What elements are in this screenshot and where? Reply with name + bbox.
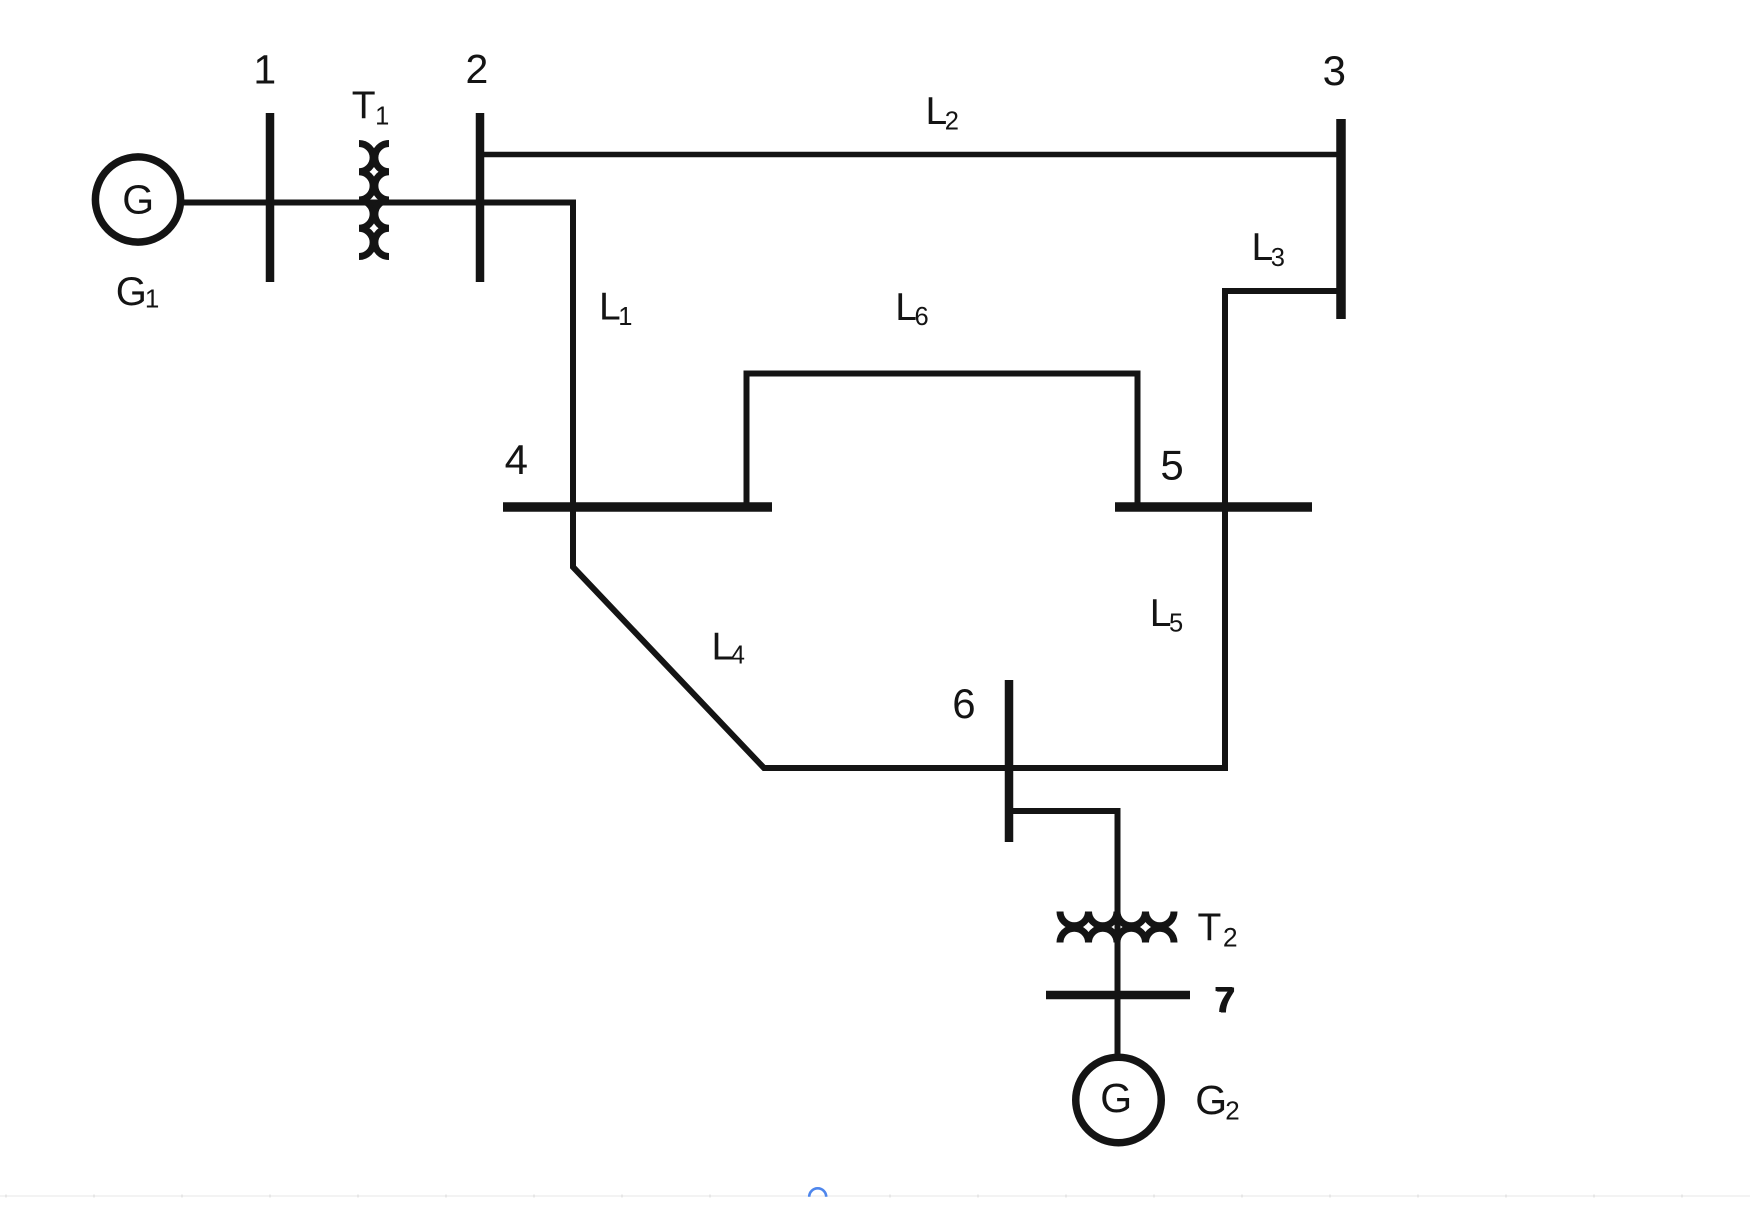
- transformer T2 (horizontal windings): [1060, 912, 1174, 943]
- bus 3: [1336, 119, 1346, 319]
- wire: line L6 loop (bus 4 up and over to bus 5): [747, 374, 1138, 508]
- svg-text:7: 7: [1214, 979, 1234, 1020]
- wire: line L5 (bus 5 down, across to bus 6): [1009, 507, 1225, 768]
- wire: line L2 (bus 2 to bus 3): [480, 152, 1341, 158]
- wire: transformer T2 to bus 7 to generator G2: [1115, 905, 1121, 1056]
- generator G1: [95, 157, 180, 242]
- transformer T1 (vertical windings): [359, 144, 389, 257]
- page-edge ruler line: [0, 1195, 1750, 1198]
- bus 4: [503, 502, 772, 512]
- wire: generator G1 lead through bus 1 to bus 2: [178, 200, 480, 206]
- svg-text:G: G: [122, 177, 154, 223]
- wire: bus 6 stub to transformer T2: [1009, 811, 1118, 942]
- wire: line L1 (bus 2 to bus 4): [480, 203, 573, 565]
- svg-text:2: 2: [466, 46, 489, 92]
- bus 5: [1115, 502, 1312, 512]
- svg-text:6: 6: [952, 680, 975, 727]
- bus 2: [476, 113, 485, 282]
- selection handle (blue half circle): [809, 1188, 826, 1197]
- wire: line L3 (bus 3 down to bus 5): [1225, 291, 1341, 507]
- svg-text:1: 1: [253, 47, 276, 93]
- svg-text:4: 4: [505, 436, 528, 483]
- svg-text:5: 5: [1160, 441, 1183, 488]
- generator G2: [1076, 1057, 1162, 1143]
- bus 6: [1005, 680, 1014, 842]
- bus 7: [1046, 991, 1190, 1000]
- bus 1: [266, 113, 275, 282]
- svg-text:3: 3: [1323, 47, 1346, 94]
- svg-text:G: G: [1100, 1075, 1132, 1121]
- wire: line L4 diagonal and run to bus 6: [573, 560, 1009, 768]
